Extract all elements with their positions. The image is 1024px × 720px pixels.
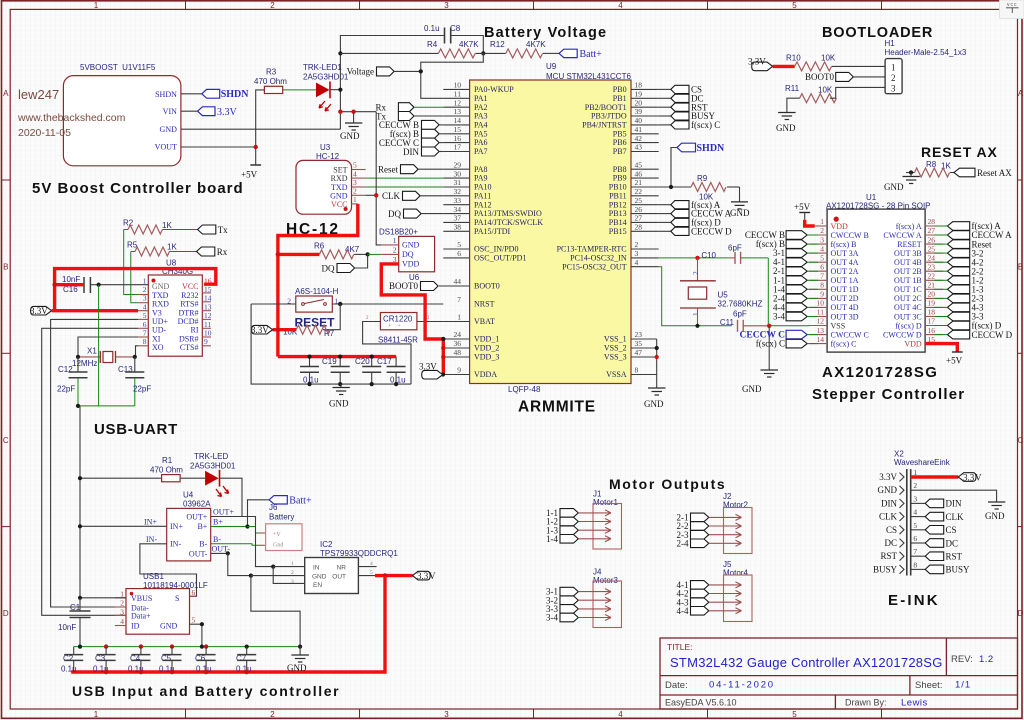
junction dot red C16 xyxy=(52,283,56,287)
svg-text:OUT 3A: OUT 3A xyxy=(831,249,859,258)
svg-text:CS: CS xyxy=(886,525,897,535)
capacitor C20 xyxy=(355,357,381,385)
svg-text:2: 2 xyxy=(270,710,275,719)
X2 pin5 wire CS xyxy=(911,529,926,531)
junction dot VOUT xyxy=(254,145,258,149)
svg-text:12MHz: 12MHz xyxy=(72,359,97,368)
svg-text:17: 17 xyxy=(454,143,462,152)
svg-text:6: 6 xyxy=(192,588,196,597)
MCU U9 STM32L431CCT6 xyxy=(470,62,632,394)
svg-text:3: 3 xyxy=(820,235,824,244)
wire PC15 to C11 xyxy=(659,267,732,326)
svg-text:CS: CS xyxy=(946,525,957,535)
header H1 Header-Male-2.54_1x3 xyxy=(885,39,967,94)
svg-text:3.3V: 3.3V xyxy=(748,57,766,67)
svg-text:OUT 4C: OUT 4C xyxy=(894,303,922,312)
svg-text:4: 4 xyxy=(820,244,824,253)
svg-text:22pF: 22pF xyxy=(133,385,151,394)
svg-text:PB12: PB12 xyxy=(609,200,627,209)
power flag 3.3V regulator xyxy=(413,571,437,581)
svg-text:PC15-OSC32_OUT: PC15-OSC32_OUT xyxy=(562,262,627,271)
svg-text:DC: DC xyxy=(946,538,959,548)
port DC eink xyxy=(925,538,958,548)
port CS eink xyxy=(925,525,956,535)
svg-text:25: 25 xyxy=(635,196,643,205)
svg-text:6: 6 xyxy=(143,320,147,329)
svg-text:D: D xyxy=(1018,609,1024,618)
svg-text:DSR#: DSR# xyxy=(179,334,199,343)
svg-text:23: 23 xyxy=(928,262,936,271)
svg-text:IN+: IN+ xyxy=(170,522,183,531)
CH340G right pin numbers xyxy=(204,276,212,346)
svg-text:CWCCW D: CWCCW D xyxy=(883,330,922,339)
ground stepper xyxy=(742,326,778,394)
svg-text:CTS#: CTS# xyxy=(180,343,199,352)
svg-text:7: 7 xyxy=(913,547,917,556)
svg-text:9: 9 xyxy=(204,337,208,346)
svg-text:CR1220: CR1220 xyxy=(383,315,413,324)
svg-text:R3: R3 xyxy=(266,68,277,77)
svg-text:DC: DC xyxy=(884,538,897,548)
crystal X1 12MHz xyxy=(72,347,135,369)
junction dot VDDA xyxy=(441,372,445,376)
svg-text:1: 1 xyxy=(120,589,124,598)
junction dot Voltage xyxy=(419,69,423,73)
svg-text:PB3/JTDO: PB3/JTDO xyxy=(591,112,627,121)
svg-text:21: 21 xyxy=(928,281,936,290)
svg-text:34: 34 xyxy=(454,205,462,214)
wire TXD RXD pin stubs xyxy=(138,295,148,346)
svg-text:1: 1 xyxy=(94,710,99,719)
wire R3 to LED xyxy=(283,89,316,91)
svg-text:19: 19 xyxy=(635,90,643,99)
junction dot VDD_2 xyxy=(441,346,445,350)
svg-text:DS18B20+: DS18B20+ xyxy=(379,228,418,237)
DS18B20 pin names xyxy=(402,241,420,269)
svg-text:0.1u: 0.1u xyxy=(61,665,77,674)
svg-text:3: 3 xyxy=(444,710,449,719)
wire DS18B20 VDD red xyxy=(381,264,443,339)
svg-text:22: 22 xyxy=(928,272,936,281)
svg-text:20: 20 xyxy=(635,98,643,107)
port f(scx) B to PA5 xyxy=(390,129,444,139)
junction dot VDD_1 xyxy=(441,337,445,341)
J5 flags 4-1..4-4 xyxy=(677,580,709,616)
power flag 3.3V bootloader xyxy=(748,57,773,71)
svg-text:5: 5 xyxy=(457,240,461,249)
wire LED gnd row xyxy=(340,111,376,113)
svg-text:WaveshareEink: WaveshareEink xyxy=(894,458,951,467)
junction dot VDD_1 top xyxy=(441,337,445,341)
junction dot VBUS xyxy=(78,596,82,600)
svg-text:U4: U4 xyxy=(183,491,194,500)
CH340G right pin names xyxy=(178,282,199,352)
border row letters left xyxy=(3,89,9,618)
svg-text:Header-Male-2.54_1x3: Header-Male-2.54_1x3 xyxy=(885,48,967,57)
svg-text:Stepper Controller: Stepper Controller xyxy=(812,386,965,403)
svg-text:CECCW D: CECCW D xyxy=(972,330,1013,340)
junction dot C16 right xyxy=(97,283,101,287)
svg-text:0.1u: 0.1u xyxy=(196,665,212,674)
svg-text:R8: R8 xyxy=(926,160,937,169)
wire VSS to U1 xyxy=(769,325,809,327)
svg-text:PA10: PA10 xyxy=(474,183,492,192)
svg-text:VDD_1: VDD_1 xyxy=(474,335,499,344)
power flag 3.3V UART xyxy=(30,306,52,316)
ground cap rail xyxy=(329,384,350,408)
svg-text:2: 2 xyxy=(291,570,294,576)
wire boost VOUT xyxy=(181,146,256,148)
junction dot VSS_2 xyxy=(655,346,659,350)
resistor R10 10K xyxy=(786,54,885,71)
svg-text:TRK-LED1: TRK-LED1 xyxy=(303,63,342,72)
svg-text:3.3V: 3.3V xyxy=(30,306,48,316)
svg-text:2: 2 xyxy=(393,246,397,255)
LED TRK-LED 2A5G3HD01 xyxy=(190,452,236,497)
svg-text:5: 5 xyxy=(192,616,196,625)
svg-text:BOOT0: BOOT0 xyxy=(474,282,500,291)
wire switch to NRST xyxy=(332,303,443,305)
junction dot LED cathode xyxy=(338,88,342,92)
svg-text:RESET: RESET xyxy=(897,240,922,249)
wire B- to J6 xyxy=(211,544,259,546)
boost pin VIN xyxy=(163,107,198,116)
svg-text:14: 14 xyxy=(817,335,825,344)
wire V3 pin xyxy=(138,310,148,312)
wire OUT- node xyxy=(211,552,228,554)
CH340G left pin numbers xyxy=(143,276,147,346)
MCU right pin numbers xyxy=(635,81,643,375)
svg-text:4: 4 xyxy=(143,302,147,311)
svg-text:STM32L432 Gauge Controller AX1: STM32L432 Gauge Controller AX1201728SG xyxy=(670,655,943,670)
J4 arrow wires xyxy=(578,589,611,621)
TITLE-BLOCK xyxy=(660,638,1018,709)
svg-text:RXD: RXD xyxy=(331,174,348,183)
svg-text:USB1: USB1 xyxy=(143,572,164,581)
svg-text:36: 36 xyxy=(454,339,462,348)
svg-text:18: 18 xyxy=(928,308,936,317)
svg-text:46: 46 xyxy=(635,169,643,178)
wire CR1220 to VBAT xyxy=(417,321,443,323)
svg-text:H1: H1 xyxy=(885,39,896,48)
flag f(scx) A pin28 xyxy=(947,222,969,231)
svg-text:3.3: 3.3 xyxy=(963,472,975,482)
flag 2-2 pin23 xyxy=(947,267,969,276)
svg-text:A6S-1104-H: A6S-1104-H xyxy=(295,287,339,296)
MCU left pin lines xyxy=(439,89,470,374)
svg-text:IN+: IN+ xyxy=(144,517,157,526)
svg-text:03962A: 03962A xyxy=(183,500,211,509)
wire R5 to RXD xyxy=(131,252,138,303)
DS18B20 pin numbers xyxy=(393,236,397,264)
svg-text:VBAT: VBAT xyxy=(474,317,495,326)
svg-text:16: 16 xyxy=(928,326,936,335)
svg-text:3-4: 3-4 xyxy=(773,312,785,322)
net label Batt+ xyxy=(559,49,602,60)
ground eink xyxy=(985,502,1005,521)
border row ticks right xyxy=(1018,180,1023,527)
U1 right pin numbers xyxy=(928,217,936,344)
svg-text:3.3: 3.3 xyxy=(417,571,429,581)
svg-text:1: 1 xyxy=(457,313,461,322)
port Reset AX xyxy=(954,168,1012,178)
svg-text:VSS_2: VSS_2 xyxy=(604,344,627,353)
svg-text:R11: R11 xyxy=(785,84,800,93)
svg-text:OUT 2D: OUT 2D xyxy=(831,294,859,303)
port CECCW B to PA4 xyxy=(379,120,443,130)
svg-text:CWCCW C: CWCCW C xyxy=(831,330,869,339)
resistor R12 4K7K xyxy=(490,40,559,58)
wire VBUS xyxy=(80,597,126,599)
svg-text:U3: U3 xyxy=(320,143,331,152)
svg-text:48: 48 xyxy=(454,348,462,357)
svg-text:IN-: IN- xyxy=(146,535,157,544)
svg-text:17: 17 xyxy=(928,317,936,326)
svg-text:4: 4 xyxy=(353,169,357,178)
svg-text:1-4: 1-4 xyxy=(546,534,558,544)
svg-text:f(scx) C: f(scx) C xyxy=(756,339,785,349)
svg-text:40: 40 xyxy=(635,116,643,125)
svg-text:PB6: PB6 xyxy=(613,138,627,147)
svg-text:IC2: IC2 xyxy=(320,540,333,549)
junction dot gnd row left xyxy=(338,110,342,114)
wire red cap rail xyxy=(278,355,396,358)
svg-text:OUT 3D: OUT 3D xyxy=(831,312,859,321)
wire red to R6 xyxy=(278,253,320,256)
port BUSY eink xyxy=(925,565,970,575)
svg-text:CLK: CLK xyxy=(879,512,898,522)
svg-text:19: 19 xyxy=(928,299,936,308)
svg-text:12: 12 xyxy=(817,317,825,326)
junction dot rail left xyxy=(76,404,80,408)
J1 flags 1-1..1-4 xyxy=(546,508,578,544)
svg-text:9: 9 xyxy=(820,290,824,299)
wire switch pin1 down to R7 xyxy=(323,304,340,330)
svg-text:Battery Voltage: Battery Voltage xyxy=(484,25,607,41)
U4 outside pin labels xyxy=(144,508,234,554)
svg-text:OUT 3C: OUT 3C xyxy=(894,312,922,321)
wire IC2 OUT red xyxy=(358,575,412,577)
flag 3-2 pin25 xyxy=(947,249,969,258)
wire HC12 TXD to PA10 xyxy=(366,186,444,188)
svg-text:CECCW D: CECCW D xyxy=(691,226,732,236)
svg-text:35: 35 xyxy=(635,339,643,348)
capacitor C6 0.1u xyxy=(195,647,216,674)
svg-text:4: 4 xyxy=(618,1,623,10)
U1 left flags column xyxy=(740,230,808,349)
X2 pin numbers xyxy=(913,468,917,569)
svg-text:ARMMITE: ARMMITE xyxy=(518,399,596,416)
capacitor C11 6pF xyxy=(720,310,769,332)
MCU left pin names xyxy=(474,85,543,379)
svg-text:27: 27 xyxy=(635,214,643,223)
capacitor C18 0.1u xyxy=(300,357,319,385)
ground LED row xyxy=(340,112,362,141)
junction dot IC2 GND xyxy=(249,574,253,578)
J2 arrow wires xyxy=(709,514,742,546)
svg-text:+5V: +5V xyxy=(241,170,258,180)
svg-text:PA15/JTDI: PA15/JTDI xyxy=(474,227,510,236)
svg-text:GND: GND xyxy=(985,511,1005,521)
svg-text:V3: V3 xyxy=(152,308,162,317)
svg-text:VSS_1: VSS_1 xyxy=(604,335,627,344)
svg-text:9: 9 xyxy=(457,366,461,375)
svg-text:EasyEDA V5.6.10: EasyEDA V5.6.10 xyxy=(665,698,737,708)
svg-text:EN: EN xyxy=(313,582,322,589)
svg-text:TRK-LED: TRK-LED xyxy=(194,452,228,461)
svg-text:5: 5 xyxy=(792,710,797,719)
junction dot X1 right xyxy=(133,355,137,359)
svg-text:33: 33 xyxy=(454,196,462,205)
port CS on PB0 xyxy=(659,85,702,95)
svg-text:3-4: 3-4 xyxy=(546,613,558,623)
svg-text:23: 23 xyxy=(635,330,643,339)
flag 3-3 pin18 xyxy=(947,312,969,321)
svg-text:5: 5 xyxy=(820,253,824,262)
svg-text:2: 2 xyxy=(820,226,824,235)
svg-text:1/1: 1/1 xyxy=(955,680,971,691)
svg-text:PA1: PA1 xyxy=(474,94,488,103)
svg-text:39: 39 xyxy=(635,107,643,116)
svg-text:VDD: VDD xyxy=(831,222,849,231)
svg-text:RST: RST xyxy=(946,552,963,562)
svg-text:R1: R1 xyxy=(162,456,173,465)
X2 pin6 wire DC xyxy=(911,542,926,544)
svg-text:B-: B- xyxy=(213,535,221,544)
svg-text:SHDN: SHDN xyxy=(221,89,250,100)
svg-text:VDDA: VDDA xyxy=(474,370,497,379)
svg-text:Date:: Date: xyxy=(665,680,688,691)
svg-text:Gnd: Gnd xyxy=(273,543,283,549)
regulator IC2 TPS79933QDDCRQ1 xyxy=(291,540,398,594)
svg-text:2: 2 xyxy=(635,240,639,249)
wire to R1 xyxy=(80,477,162,479)
svg-text:OUT 2B: OUT 2B xyxy=(894,267,922,276)
svg-text:25: 25 xyxy=(928,244,936,253)
svg-text:TITLE:: TITLE: xyxy=(667,642,693,652)
svg-text:OUT+: OUT+ xyxy=(186,512,207,521)
svg-text:2: 2 xyxy=(691,271,700,275)
resistor R11 10K xyxy=(785,84,885,113)
svg-text:Motor4: Motor4 xyxy=(723,569,748,578)
connector J6 Battery xyxy=(266,503,302,551)
svg-text:C: C xyxy=(1018,436,1024,445)
svg-text:16: 16 xyxy=(454,134,462,143)
svg-text:RTS#: RTS# xyxy=(180,300,198,309)
svg-text:22pF: 22pF xyxy=(57,385,75,394)
svg-text:PA0-WKUP: PA0-WKUP xyxy=(474,85,514,94)
svg-text:4: 4 xyxy=(635,258,639,267)
connector J2 Motor2 xyxy=(723,492,752,554)
svg-text:USB-UART: USB-UART xyxy=(94,421,178,438)
U1 left pin names xyxy=(831,222,869,349)
svg-text:8: 8 xyxy=(143,337,147,346)
svg-text:PB1: PB1 xyxy=(613,94,627,103)
svg-text:PB2/BOOT1: PB2/BOOT1 xyxy=(585,103,627,112)
svg-text:XI: XI xyxy=(152,334,161,343)
wire VSS bus to GND xyxy=(656,339,658,388)
svg-text:32: 32 xyxy=(454,187,462,196)
svg-text:VDD_2: VDD_2 xyxy=(474,344,499,353)
svg-text:ID: ID xyxy=(131,622,140,631)
svg-text:PC13-TAMPER-RTC: PC13-TAMPER-RTC xyxy=(557,245,627,254)
svg-text:BOOTLOADER: BOOTLOADER xyxy=(822,25,933,41)
port CLK eink xyxy=(925,512,964,522)
power flag 3.3V eink xyxy=(958,472,982,482)
junction dot PB10/SHDN xyxy=(669,185,673,189)
svg-text:470 Ohm: 470 Ohm xyxy=(254,77,287,86)
capacitor C7 0.1u xyxy=(236,647,256,674)
port Rx from R5 xyxy=(197,247,228,257)
svg-text:GND: GND xyxy=(878,485,898,495)
svg-text:4: 4 xyxy=(913,508,917,517)
junction dot R6 red xyxy=(276,252,281,257)
junction dot OUT- xyxy=(226,551,230,555)
svg-text:DQ: DQ xyxy=(402,250,414,259)
svg-text:DQ: DQ xyxy=(322,263,335,273)
svg-text:DCD#: DCD# xyxy=(178,317,199,326)
port Rx to PA2 xyxy=(375,103,443,113)
svg-text:3: 3 xyxy=(891,83,896,93)
svg-text:10: 10 xyxy=(817,299,825,308)
svg-text:IN-: IN- xyxy=(170,540,181,549)
svg-text:VCC: VCC xyxy=(331,200,347,209)
wire LED cathode xyxy=(330,89,340,91)
wire IN- xyxy=(140,544,197,597)
svg-text:PA3: PA3 xyxy=(474,112,488,121)
svg-text:Battery: Battery xyxy=(269,513,294,522)
power flag 3.3V at VDDA xyxy=(419,362,443,379)
svg-text:f(scx) D: f(scx) D xyxy=(895,321,922,330)
svg-text:OUT 4D: OUT 4D xyxy=(831,303,859,312)
net label SHDN on PB10 xyxy=(671,143,725,187)
junction dot X1 left xyxy=(76,355,80,359)
svg-text:B+: B+ xyxy=(213,517,223,526)
svg-text:8: 8 xyxy=(913,560,917,569)
svg-text:TXD: TXD xyxy=(152,291,169,300)
junction dot VSS_3 xyxy=(655,355,659,359)
svg-text:OUT 2C: OUT 2C xyxy=(894,294,922,303)
svg-text:470 Ohm: 470 Ohm xyxy=(150,466,183,475)
CH340G GND pin wire xyxy=(99,284,149,286)
svg-text:OSC_IN/PD0: OSC_IN/PD0 xyxy=(474,245,518,254)
border column ticks top xyxy=(186,1,882,10)
svg-text:13: 13 xyxy=(204,302,212,311)
svg-text:IN: IN xyxy=(313,565,320,572)
svg-text:10nF: 10nF xyxy=(62,275,80,284)
svg-text:USB Input and Battery controll: USB Input and Battery controller xyxy=(72,683,340,699)
svg-text:GND: GND xyxy=(402,241,420,250)
connector J5 Motor4 xyxy=(723,560,752,622)
svg-text:13: 13 xyxy=(454,107,462,116)
svg-text:21: 21 xyxy=(635,178,643,187)
svg-text:PB15: PB15 xyxy=(609,227,627,236)
svg-text:R232: R232 xyxy=(181,291,198,300)
connector J4 Motor3 xyxy=(593,568,622,628)
svg-text:RXD: RXD xyxy=(152,300,169,309)
wire USB gnd down xyxy=(190,624,202,646)
svg-text:NRST: NRST xyxy=(474,300,495,309)
junction dot USB gnd xyxy=(200,622,204,626)
capacitor C2 0.1u xyxy=(61,647,83,674)
chip U1 AX1201728SG xyxy=(826,193,931,352)
junction dot R6 right xyxy=(366,252,370,256)
border row ticks left xyxy=(2,180,11,527)
wire gnd net down to DS18B20 xyxy=(376,112,381,245)
svg-text:7: 7 xyxy=(143,329,147,338)
svg-text:PB0: PB0 xyxy=(613,85,627,94)
port f(scx) C on PB4 xyxy=(659,120,721,130)
